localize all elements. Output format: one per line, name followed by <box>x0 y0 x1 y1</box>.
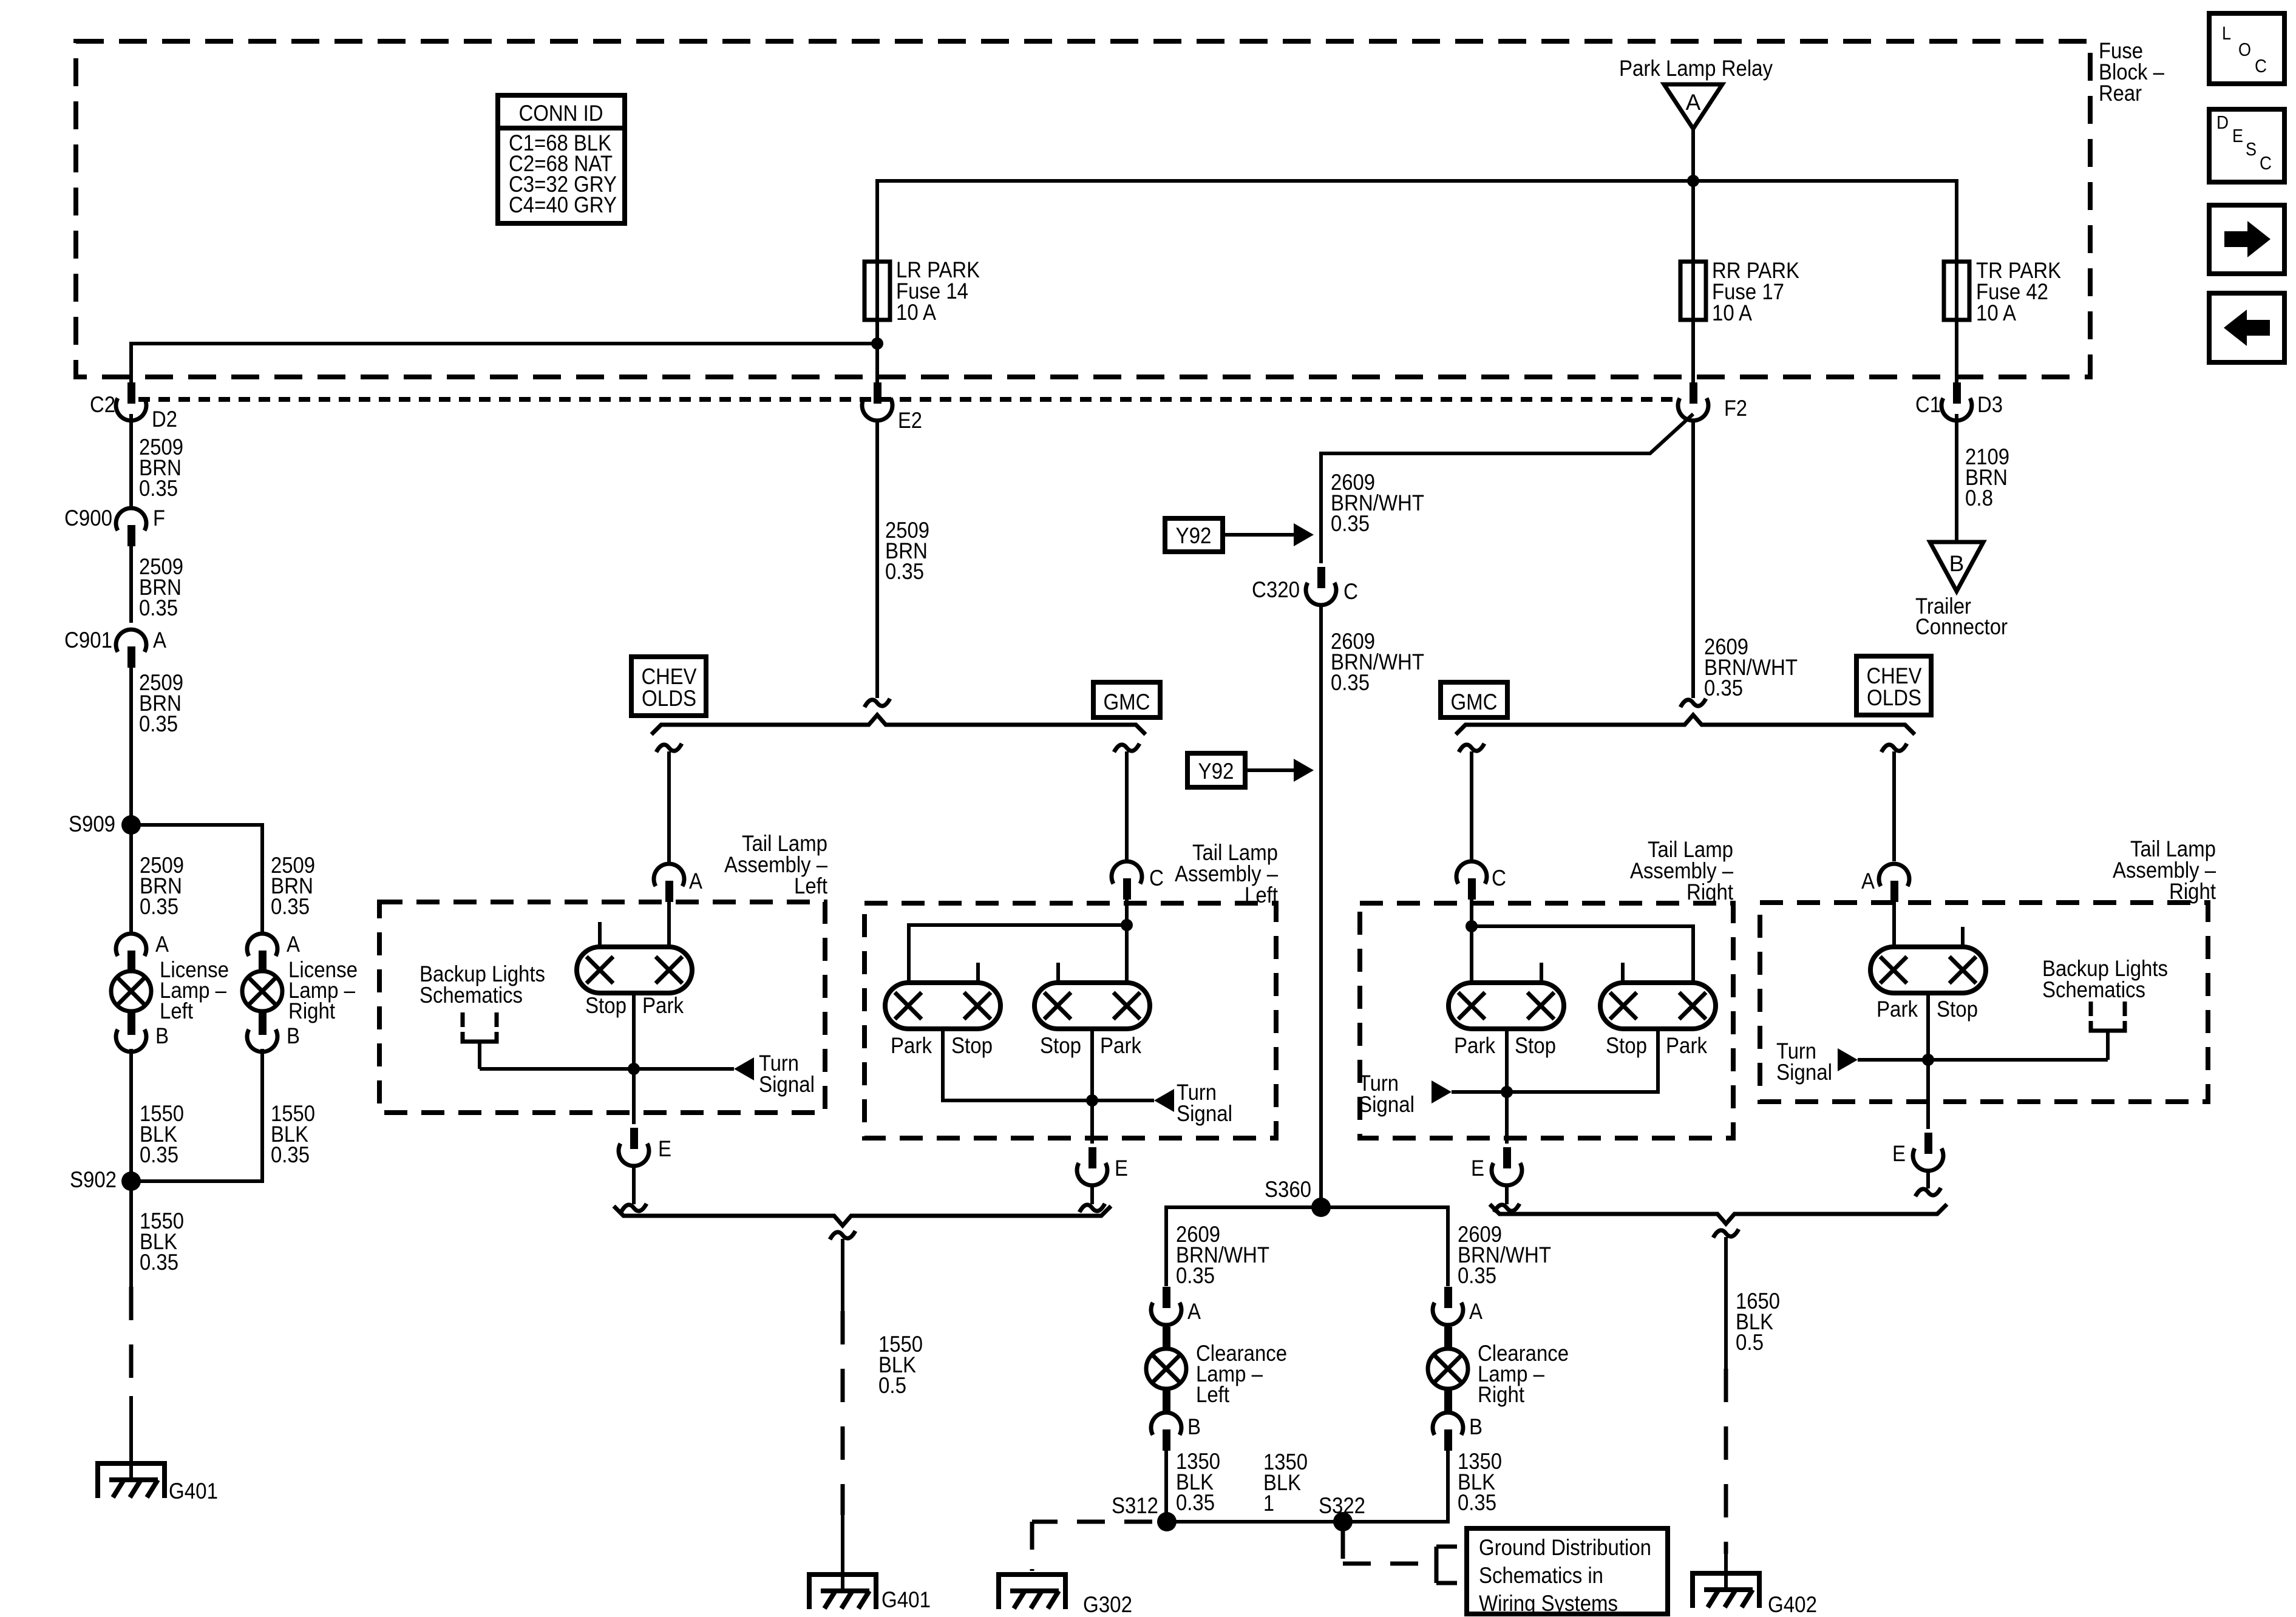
svg-text:Right: Right <box>1478 1382 1525 1407</box>
wire E gmc-left tail <box>1079 1185 1105 1212</box>
svg-text:C: C <box>2255 55 2267 76</box>
svg-text:Schematics: Schematics <box>419 983 523 1008</box>
connector E gmc-right <box>1471 1147 1522 1185</box>
svg-text:CONN ID: CONN ID <box>519 101 603 126</box>
svg-text:B: B <box>1469 1414 1483 1439</box>
label: 2509 BRN 0.35 (C2-C900) <box>139 435 183 501</box>
label: 1550 BLK 0.35 (right) <box>271 1101 315 1167</box>
svg-text:E2: E2 <box>898 408 922 433</box>
connector A tail chev-left <box>654 864 702 902</box>
svg-text:0.35: 0.35 <box>271 1142 310 1167</box>
wire A to stop/park lamp <box>667 901 671 947</box>
wire C320 to S360 <box>1319 605 1323 1207</box>
license lamp - right <box>242 951 358 1033</box>
wire junction to E chev-left <box>632 1069 636 1124</box>
park/stop lamp chev-right <box>1870 927 1986 1022</box>
svg-text:0.8: 0.8 <box>1965 486 1993 510</box>
park/stop lamp gmc-left 1 <box>885 963 1000 1058</box>
label: Backup Lights Schematics (left) <box>419 961 545 1008</box>
label: TR PARK Fuse 42 10 A <box>1976 258 2061 325</box>
label: 1350 BLK 0.35 (right) <box>1458 1449 1502 1515</box>
svg-text:C: C <box>1343 579 1358 604</box>
fuse F17 RR PARK <box>1680 262 1706 320</box>
park lamp relay triangle pin A <box>1664 84 1722 129</box>
svg-text:S909: S909 <box>69 812 115 836</box>
svg-text:C4=40 GRY: C4=40 GRY <box>509 192 617 217</box>
wire F2 to C320 column <box>1321 414 1693 563</box>
stop/park lamp gmc-left 2 <box>1034 963 1150 1058</box>
svg-text:Y92: Y92 <box>1198 759 1234 784</box>
splice S312 <box>1112 1493 1177 1531</box>
label: 2609 BRN/WHT 0.35 (cl-left) <box>1176 1222 1269 1288</box>
svg-text:0.5: 0.5 <box>878 1373 906 1398</box>
svg-text:G402: G402 <box>1768 1592 1817 1617</box>
svg-text:0.35: 0.35 <box>140 894 178 919</box>
svg-text:C320: C320 <box>1252 577 1300 602</box>
svg-text:D2: D2 <box>152 407 177 432</box>
svg-text:S322: S322 <box>1319 1493 1365 1518</box>
clearance lamp - left <box>1146 1327 1287 1414</box>
svg-text:Stop: Stop <box>1937 997 1978 1022</box>
node: junction below fuse 14 <box>871 337 883 350</box>
svg-text:C: C <box>2260 152 2272 174</box>
ground brace (left pair) <box>614 1206 1111 1225</box>
label: Tail Lamp Assembly - Left (chev) <box>724 831 828 898</box>
svg-text:C: C <box>1492 866 1506 890</box>
svg-text:0.35: 0.35 <box>1704 676 1743 700</box>
connector C901 pin A <box>64 628 166 668</box>
svg-text:Signal: Signal <box>1177 1101 1232 1126</box>
connector C900 pin F <box>64 506 165 546</box>
connector A tail chev-right <box>1861 864 1909 902</box>
splice S322 <box>1319 1493 1365 1531</box>
wire S312 to G302 (dashed) <box>1032 1522 1152 1571</box>
svg-text:F2: F2 <box>1724 396 1747 421</box>
svg-text:Signal: Signal <box>1359 1092 1415 1117</box>
svg-text:E: E <box>1115 1156 1128 1181</box>
svg-text:Park: Park <box>1454 1033 1495 1058</box>
wire gmc-left branch <box>1114 744 1140 861</box>
svg-text:OLDS: OLDS <box>1867 685 1921 710</box>
svg-text:Left: Left <box>160 998 194 1023</box>
svg-text:Stop: Stop <box>1515 1033 1556 1058</box>
wire S902 to ground <box>129 1181 133 1480</box>
fuse F14 LR PARK <box>864 262 890 320</box>
svg-text:0.35: 0.35 <box>139 476 178 501</box>
svg-text:Schematics in: Schematics in <box>1479 1563 1603 1588</box>
svg-text:0.35: 0.35 <box>140 1250 178 1275</box>
svg-text:10 A: 10 A <box>896 300 936 325</box>
svg-text:Rear: Rear <box>2099 81 2142 106</box>
label: 2509 BRN 0.35 (C901-S909) <box>139 670 183 736</box>
tag box CHEV OLDS (left) <box>631 657 706 716</box>
label: 1550 BLK 0.35 (left) <box>140 1101 184 1167</box>
wire junction to E gmc-right <box>1505 1092 1509 1144</box>
reference Y92 (lower) <box>1187 753 1314 787</box>
tag box GMC (left) <box>1093 682 1160 717</box>
connector C2 pin D2 <box>90 382 177 432</box>
wire S909 to left license lamp <box>129 825 133 935</box>
connector E gmc-left <box>1077 1147 1128 1185</box>
ground reference bracket <box>1436 1547 1457 1583</box>
turn signal stub gmc-right <box>1359 1071 1507 1117</box>
svg-text:E: E <box>658 1136 671 1161</box>
harness dotted boundary line <box>138 397 1677 402</box>
svg-text:G401: G401 <box>169 1479 218 1503</box>
node: turn signal junction gmc-right <box>1501 1086 1513 1098</box>
svg-text:S360: S360 <box>1265 1177 1311 1202</box>
connector A clearance left <box>1151 1287 1201 1325</box>
svg-text:C901: C901 <box>64 628 112 653</box>
split brace (right pair) <box>1456 715 1915 734</box>
fuse block - rear (dashed outline) <box>76 41 2090 377</box>
wire C1 to trailer connector <box>1955 414 1958 542</box>
label: Backup Lights Schematics (right) <box>2042 956 2168 1002</box>
label: 1650 BLK 0.5 <box>1736 1289 1780 1355</box>
nav box prev arrow <box>2209 293 2284 362</box>
svg-text:S: S <box>2246 138 2257 160</box>
svg-text:GMC: GMC <box>1451 690 1498 714</box>
connector C tail gmc-right <box>1456 861 1506 900</box>
label: 2609 BRN/WHT 0.35 (cl-right) <box>1458 1222 1551 1288</box>
svg-text:A: A <box>287 932 300 957</box>
wire brace to G402 <box>1713 1229 1739 1590</box>
label: 2609 BRN/WHT 0.35 (F2) <box>1704 634 1798 700</box>
svg-text:Schematics: Schematics <box>2042 977 2145 1002</box>
label: 2509 BRN 0.35 (left lamp) <box>140 853 184 919</box>
svg-text:1: 1 <box>1263 1491 1274 1516</box>
wire E chev-left tail <box>621 1165 647 1212</box>
note box: Ground Distribution Schematics <box>1467 1528 1668 1616</box>
svg-text:A: A <box>689 869 702 893</box>
svg-text:Signal: Signal <box>1776 1060 1832 1085</box>
wire left B to S902 <box>129 1049 133 1181</box>
nav box LOC <box>2209 13 2284 84</box>
label: 2509 BRN 0.35 (right lamp) <box>271 853 315 919</box>
svg-text:B: B <box>155 1023 169 1048</box>
backup lights bracket (right) <box>1928 1002 2125 1060</box>
splice S360 <box>1265 1177 1331 1217</box>
svg-text:Left: Left <box>1196 1382 1230 1407</box>
label: Fuse Block - Rear <box>2099 38 2164 106</box>
svg-text:0.35: 0.35 <box>1176 1490 1215 1515</box>
wire C901 to S909 <box>129 668 133 825</box>
svg-text:Left: Left <box>794 873 828 898</box>
wire C2 to C900 <box>129 414 133 508</box>
wire C to park feed gmc-right <box>1470 898 1473 981</box>
connector A clearance right <box>1433 1287 1483 1325</box>
label: 2509 BRN 0.35 (C900-C901) <box>139 554 183 620</box>
svg-text:B: B <box>287 1023 300 1048</box>
tag box GMC (right) <box>1441 682 1507 717</box>
connector B license right <box>247 1014 300 1052</box>
svg-text:Signal: Signal <box>759 1072 815 1097</box>
park feed jumper gmc-left <box>909 925 1127 981</box>
connector E chev-right <box>1892 1133 1943 1171</box>
label: 2509 BRN 0.35 (E2) <box>885 518 929 584</box>
node: turn signal junction gmc-left <box>1086 1094 1098 1107</box>
wire A to park/stop lamp chev-right <box>1892 901 1896 947</box>
node: park feed junction gmc-left <box>1121 919 1133 931</box>
wire S322 to ground ref (dashed) <box>1343 1531 1433 1564</box>
ground G401 (left) <box>98 1463 218 1503</box>
svg-text:E: E <box>1892 1141 1906 1166</box>
wire F2 down to brace <box>1680 419 1706 707</box>
turn signal stub gmc-left <box>1092 1080 1232 1126</box>
svg-text:0.35: 0.35 <box>1331 670 1370 695</box>
svg-text:A: A <box>153 628 166 653</box>
wire chev-right branch <box>1881 744 1907 861</box>
splice S902 <box>70 1167 141 1192</box>
wire C to park feed <box>1125 898 1129 981</box>
svg-text:B: B <box>1949 551 1965 576</box>
svg-text:C2: C2 <box>90 392 115 417</box>
svg-text:Stop: Stop <box>585 993 627 1018</box>
svg-text:OLDS: OLDS <box>642 686 696 711</box>
label: Park Lamp Relay <box>1619 56 1773 81</box>
wire gmc-right branch <box>1459 744 1484 861</box>
connector C320 pin C <box>1252 567 1358 605</box>
svg-text:E: E <box>2232 125 2243 146</box>
label: 1350 BLK 1 <box>1263 1449 1308 1516</box>
svg-text:CHEV: CHEV <box>1867 663 1922 688</box>
svg-text:Stop: Stop <box>1606 1033 1647 1058</box>
svg-text:Park Lamp Relay: Park Lamp Relay <box>1619 56 1773 81</box>
wire brace to G401 center <box>830 1231 855 1591</box>
wire B left to S312 <box>1164 1449 1168 1522</box>
svg-text:0.35: 0.35 <box>139 595 178 620</box>
svg-text:A: A <box>1469 1299 1483 1324</box>
svg-text:0.35: 0.35 <box>885 559 924 584</box>
backup lights bracket (left) <box>463 1012 634 1069</box>
svg-text:A: A <box>155 932 169 957</box>
svg-text:E: E <box>1471 1156 1484 1181</box>
label: 2609 BRN/WHT 0.35 (below C320) <box>1331 629 1424 695</box>
connector E chev-left <box>619 1128 671 1166</box>
internal feed wire to C2 <box>131 344 877 402</box>
svg-text:0.35: 0.35 <box>140 1142 178 1167</box>
svg-text:O: O <box>2238 39 2251 60</box>
svg-text:0.35: 0.35 <box>1331 511 1370 536</box>
svg-text:Right: Right <box>1686 880 1734 904</box>
svg-text:A: A <box>1686 90 1701 115</box>
tail lamp assembly left (gmc) dashed box <box>864 903 1276 1138</box>
svg-text:Right: Right <box>2169 879 2216 904</box>
svg-text:L: L <box>2222 22 2231 44</box>
svg-text:Connector: Connector <box>1915 614 2008 639</box>
wire lamp1 to junction gmc-right <box>1505 1029 1509 1092</box>
svg-text:0.35: 0.35 <box>139 711 178 736</box>
label: 1550 BLK 0.35 (S902-G401) <box>140 1209 184 1275</box>
label: RR PARK Fuse 17 10 A <box>1712 258 1799 325</box>
fuse F42 TR PARK <box>1944 262 1969 320</box>
svg-text:10 A: 10 A <box>1712 300 1752 325</box>
connector E2 <box>862 382 922 433</box>
ground G402 <box>1693 1573 1817 1617</box>
connector A license left <box>116 932 169 972</box>
wire B right to S322 <box>1343 1449 1448 1522</box>
wire lamp1 to junction gmc-left <box>943 1029 1092 1100</box>
svg-text:F: F <box>153 506 165 531</box>
wire lamp2 to junction gmc-left <box>1090 1029 1094 1100</box>
turn signal stub chev-right <box>1776 1039 1928 1085</box>
nav box next arrow <box>2209 205 2284 274</box>
wire S909 branch <box>131 825 262 935</box>
connector B license left <box>116 1014 169 1052</box>
split brace (left pair) <box>651 715 1146 734</box>
wire relay through fuse 17 to F2 <box>1691 129 1695 402</box>
wire junction to E gmc-left <box>1090 1100 1094 1144</box>
svg-text:B: B <box>1187 1414 1201 1439</box>
svg-text:GMC: GMC <box>1104 690 1150 714</box>
connector B clearance left <box>1151 1412 1201 1451</box>
ground G302 <box>999 1575 1132 1617</box>
label: Tail Lamp Assembly - Left (gmc) <box>1175 840 1279 907</box>
svg-text:D3: D3 <box>1977 392 2003 417</box>
svg-text:0.35: 0.35 <box>1176 1263 1215 1288</box>
svg-text:Right: Right <box>288 998 336 1023</box>
label: 1350 BLK 0.35 (left) <box>1176 1449 1220 1515</box>
svg-text:0.35: 0.35 <box>1458 1263 1496 1288</box>
connector F2 <box>1678 382 1747 421</box>
label: 2109 BRN 0.8 <box>1965 444 2009 510</box>
label: 2609 BRN/WHT 0.35 (above C320) <box>1331 470 1424 536</box>
connector C1 pin D3 <box>1915 382 2003 421</box>
CONN ID table box <box>498 95 625 223</box>
tail lamp assembly right (gmc) dashed box <box>1360 903 1733 1138</box>
tail lamp assembly left (chev) dashed box <box>379 902 825 1113</box>
connector A license right <box>247 932 300 972</box>
svg-text:A: A <box>1861 869 1875 893</box>
wire C900 to C901 <box>129 546 133 623</box>
tag box CHEV OLDS (right) <box>1856 656 1931 715</box>
reference Y92 (upper) <box>1165 518 1314 552</box>
svg-text:Park: Park <box>1877 997 1918 1022</box>
svg-text:Stop: Stop <box>1040 1033 1081 1058</box>
svg-text:Stop: Stop <box>951 1033 993 1058</box>
svg-text:0.5: 0.5 <box>1736 1330 1764 1355</box>
wire E gmc-right tail <box>1494 1185 1520 1212</box>
svg-text:Park: Park <box>1100 1033 1141 1058</box>
stop/park lamp chev-left <box>577 922 692 1018</box>
turn signal stub chev-left <box>634 1051 815 1097</box>
park feed jumper gmc-right <box>1472 926 1693 981</box>
label: Tail Lamp Assembly - Right (chev) <box>2113 836 2216 904</box>
svg-text:Park: Park <box>891 1033 932 1058</box>
svg-text:S902: S902 <box>70 1167 117 1192</box>
wire E2 down to brace <box>864 419 890 707</box>
svg-text:Park: Park <box>642 993 684 1018</box>
svg-text:S312: S312 <box>1112 1493 1158 1518</box>
nav box DESC <box>2209 109 2284 182</box>
svg-text:Park: Park <box>1666 1033 1707 1058</box>
wire E chev-right tail <box>1915 1170 1941 1196</box>
connector C tail gmc-left <box>1112 861 1164 900</box>
svg-text:C900: C900 <box>64 506 112 531</box>
svg-text:C: C <box>1149 866 1164 890</box>
park/stop lamp gmc-right 1 <box>1449 963 1564 1058</box>
svg-text:G302: G302 <box>1083 1592 1132 1617</box>
ground brace (right pair) <box>1490 1204 1947 1224</box>
svg-text:CHEV: CHEV <box>642 664 697 689</box>
clearance feed wire <box>1166 1207 1448 1286</box>
svg-text:Ground Distribution: Ground Distribution <box>1479 1535 1651 1560</box>
svg-text:10 A: 10 A <box>1976 300 2016 325</box>
svg-text:Y92: Y92 <box>1176 523 1212 548</box>
node: park feed junction gmc-right <box>1466 920 1478 932</box>
svg-text:0.35: 0.35 <box>1458 1490 1496 1515</box>
label: 1550 BLK 0.5 <box>878 1332 923 1398</box>
svg-text:Wiring Systems: Wiring Systems <box>1479 1591 1618 1616</box>
label: Tail Lamp Assembly - Right (gmc) <box>1630 837 1734 904</box>
svg-text:C1: C1 <box>1915 392 1941 417</box>
label: LR PARK Fuse 14 10 A <box>896 257 980 325</box>
svg-text:D: D <box>2216 112 2229 133</box>
wire chev-left branch <box>656 744 682 864</box>
splice S909 <box>69 812 141 836</box>
wire lamp to junction chev-right <box>1926 993 1930 1060</box>
wire right B to S902 <box>131 1049 262 1181</box>
label: Trailer Connector <box>1915 594 2008 639</box>
wire junction to E chev-right <box>1926 1060 1930 1129</box>
ground G401 (center) <box>809 1575 931 1612</box>
svg-text:A: A <box>1187 1299 1201 1324</box>
svg-text:G401: G401 <box>881 1587 931 1612</box>
tail lamp assembly right (chev) dashed box <box>1760 903 2208 1102</box>
node: turn signal junction chev-right <box>1922 1054 1934 1066</box>
trailer connector triangle pin B <box>1930 542 1983 591</box>
license lamp - left <box>111 951 229 1033</box>
connector B clearance right <box>1433 1412 1483 1451</box>
node: turn signal junction chev-left <box>628 1063 640 1075</box>
wire lamp2 to junction gmc-right <box>1507 1029 1658 1092</box>
node: bus junction at relay <box>1687 175 1699 187</box>
wire lamp to junction <box>632 993 636 1069</box>
clearance lamp - right <box>1428 1327 1569 1414</box>
svg-text:0.35: 0.35 <box>271 894 310 919</box>
stop/park lamp gmc-right 2 <box>1600 963 1716 1058</box>
fuse supply bus wire <box>877 181 1957 402</box>
wire S312 to S322 <box>1167 1520 1343 1524</box>
